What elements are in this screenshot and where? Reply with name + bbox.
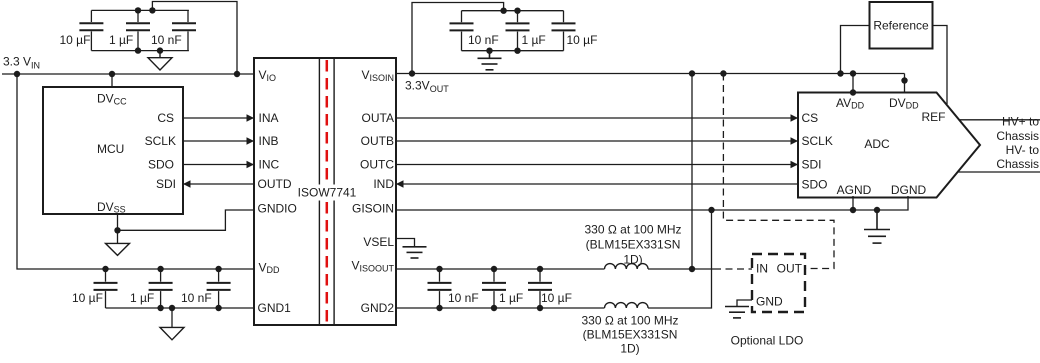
wire VSEL to ground — [396, 239, 415, 247]
isolation barrier right line — [333, 59, 335, 324]
svg-text:SDO: SDO — [148, 158, 174, 172]
node isolated ground junction — [874, 207, 880, 213]
regulator optional LDO dashed box — [752, 254, 805, 312]
node AVDD edge junction — [850, 89, 856, 95]
svg-text:OUTB: OUTB — [361, 134, 394, 148]
svg-text:330 Ω at 100 MHz: 330 Ω at 100 MHz — [584, 223, 681, 237]
capacitor 10uF (VISOOUT bank) — [528, 269, 552, 308]
svg-text:REF: REF — [922, 110, 946, 124]
node GND1 cap junctions bottom — [157, 305, 163, 311]
ground VIO bank triangle — [148, 51, 172, 70]
wire 3.3VOUT to VISOOUT vertical — [691, 74, 693, 270]
svg-text:GNDIO: GNDIO — [258, 202, 297, 216]
svg-text:OUTA: OUTA — [362, 111, 394, 125]
wire SCLK to INB — [183, 140, 254, 142]
node VISOIN bank bottom junction 1 — [486, 48, 492, 54]
svg-text:(BLM15EX331SN: (BLM15EX331SN — [583, 328, 678, 342]
ferrite bead FB2 330 ohm — [605, 303, 649, 308]
svg-text:Chassis: Chassis — [996, 129, 1039, 143]
wire CS to INA — [183, 117, 254, 119]
svg-text:OUTD: OUTD — [258, 177, 292, 191]
svg-text:ADC: ADC — [864, 137, 890, 151]
isolation barrier left line — [318, 59, 320, 324]
svg-text:HV- to: HV- to — [1006, 143, 1040, 157]
svg-text:10 µF: 10 µF — [60, 33, 91, 47]
wire SDO to INC — [183, 164, 254, 166]
svg-text:OUT: OUT — [777, 262, 803, 276]
svg-text:10 nF: 10 nF — [468, 33, 499, 47]
node 3.3VIN junction — [14, 71, 20, 77]
svg-text:Optional LDO: Optional LDO — [731, 334, 804, 348]
node DVCC junction — [109, 71, 115, 77]
wire VISOIN cap bank feed — [412, 3, 504, 74]
svg-text:1 µF: 1 µF — [522, 33, 546, 47]
ground GND1 triangle — [160, 327, 184, 339]
wire VISOOUT line — [396, 268, 714, 270]
svg-text:10 µF: 10 µF — [72, 291, 103, 305]
node VIO bank top junction 2 — [149, 7, 155, 13]
node VIO cap junction — [234, 71, 240, 77]
wire DVDD stem — [904, 74, 906, 94]
capacitor 1uF (VISOOUT bank) — [482, 269, 506, 308]
node VIO bank bottom junction 1 — [135, 47, 141, 53]
node vertical top junction — [689, 70, 695, 76]
wire DVSS ground stem — [117, 214, 119, 243]
svg-text:HV+ to: HV+ to — [1002, 115, 1039, 129]
node AVDD rail junction — [850, 70, 856, 76]
wire HV- output — [959, 171, 1040, 173]
wire Reference to REF pin — [933, 26, 948, 105]
node VISOOUT cap junctions top — [436, 266, 442, 272]
node AGND junction — [850, 207, 856, 213]
capacitor 1uF (VISOIN bank) — [506, 11, 530, 51]
node GND2 cap junctions bottom — [436, 305, 442, 311]
svg-text:SDI: SDI — [156, 177, 176, 191]
ground VSEL earth — [403, 247, 427, 258]
svg-text:(BLM15EX331SN: (BLM15EX331SN — [586, 238, 681, 252]
wire LDO IN dashed — [714, 268, 752, 270]
svg-text:10 nF: 10 nF — [448, 291, 479, 305]
svg-text:SDO: SDO — [802, 178, 828, 192]
svg-text:10 µF: 10 µF — [541, 291, 572, 305]
svg-text:INC: INC — [259, 158, 280, 172]
wire GISOIN to AGND/DGND — [396, 196, 908, 210]
wire OUTA to ADC CS — [396, 117, 798, 119]
ADC U2 pentagon — [798, 93, 980, 198]
node LDO dashed top junction — [720, 70, 726, 76]
capacitor 1uF (VIO bank) — [126, 10, 150, 50]
ground MCU triangle — [106, 243, 130, 255]
svg-text:MCU: MCU — [97, 142, 124, 156]
node VISOOUT-3.3VOUT junction — [689, 266, 695, 272]
capacitor 1uF (VDD bank) — [149, 269, 173, 308]
svg-text:OUTC: OUTC — [360, 158, 394, 172]
wire OUTC to ADC SDI — [396, 164, 798, 166]
isolation barrier red dashed line — [326, 60, 329, 324]
svg-text:ISOW7741: ISOW7741 — [298, 186, 357, 200]
svg-text:1D): 1D) — [623, 253, 642, 267]
ground VISOIN bank earth — [478, 51, 502, 70]
svg-text:1 µF: 1 µF — [130, 291, 154, 305]
svg-text:SCLK: SCLK — [802, 134, 833, 148]
capacitor 10nF (VIO bank) — [172, 10, 196, 50]
wire VIO cap bank feed — [152, 2, 237, 75]
svg-text:Reference: Reference — [873, 19, 929, 33]
ferrite bead FB1 330 ohm — [605, 264, 649, 269]
svg-text:IND: IND — [373, 177, 394, 191]
node DVDD stem junction — [901, 77, 907, 83]
capacitor 10uF (VISOIN bank) — [552, 11, 576, 51]
MCU U-MCU box — [43, 87, 183, 214]
ground ADC earth — [864, 210, 890, 243]
node VIO bank top junction 1 — [135, 7, 141, 13]
svg-text:SCLK: SCLK — [145, 134, 176, 148]
voltage reference U3 box — [870, 2, 933, 49]
node DVSS-GNDIO junction — [114, 227, 120, 233]
wire VISOIN to 3.3VOUT rail — [396, 73, 905, 75]
svg-text:VSEL: VSEL — [363, 235, 394, 249]
wire DVCC stem — [111, 74, 113, 87]
node Reference rail junction — [837, 70, 843, 76]
capacitor 10nF (VISOOUT bank) — [428, 269, 452, 308]
svg-text:IN: IN — [756, 262, 768, 276]
svg-text:CS: CS — [157, 111, 174, 125]
svg-text:330 Ω at 100 MHz: 330 Ω at 100 MHz — [581, 314, 678, 328]
svg-text:1 µF: 1 µF — [499, 291, 523, 305]
wire LDO bypass dashed path — [723, 74, 834, 269]
svg-text:1D): 1D) — [620, 342, 639, 356]
node GISOIN-GND2 junction — [708, 207, 714, 213]
wire GND1 ground stem — [171, 308, 173, 327]
node VISOIN bank top junction 2 — [514, 8, 520, 14]
svg-text:DGND: DGND — [891, 183, 927, 197]
capacitor 10nF (VISOIN bank) — [450, 11, 474, 51]
capacitor 10uF (VIO bank) — [79, 10, 103, 50]
wire AVDD stem — [852, 74, 854, 93]
node VIO bank bottom junction 2 — [157, 47, 163, 53]
svg-text:GND1: GND1 — [258, 301, 292, 315]
svg-text:1 µF: 1 µF — [109, 33, 133, 47]
wire GNDIO to MCU ground — [118, 210, 255, 230]
wire REF output to HV+ — [960, 119, 1040, 121]
wire 3.3VIN rail — [2, 73, 254, 75]
svg-text:AGND: AGND — [837, 183, 872, 197]
svg-text:GND2: GND2 — [361, 301, 395, 315]
wire OUTD to SDI — [183, 183, 254, 185]
wire OUTB to ADC SCLK — [396, 140, 798, 142]
wire Reference to rail — [841, 26, 870, 74]
wire VISOIN cap bank top rail — [462, 10, 564, 12]
node VDD cap junctions top — [102, 266, 108, 272]
wire VIO cap bank top rail — [91, 10, 188, 50]
svg-text:SDI: SDI — [802, 158, 822, 172]
wire VISOIN cap bank bottom rail — [462, 50, 564, 52]
wire GND2 line — [396, 210, 712, 308]
wire AGND stem — [852, 196, 854, 210]
node VISOIN bank top junction 1 — [500, 8, 506, 14]
wire LDO GND — [737, 300, 752, 307]
svg-text:GISOIN: GISOIN — [352, 202, 394, 216]
capacitor 10nF (VDD bank) — [207, 269, 231, 308]
svg-text:INB: INB — [259, 134, 279, 148]
wire left vertical to VDD — [17, 74, 254, 269]
svg-text:GND: GND — [756, 295, 783, 309]
ground LDO earth — [725, 307, 749, 318]
svg-text:10 nF: 10 nF — [151, 33, 182, 47]
node VISOIN junction — [409, 70, 415, 76]
wire GND1 line — [106, 307, 255, 309]
wire VIO cap bank bottom rail — [91, 50, 188, 52]
isolator U1 ISOW7741 box — [254, 58, 396, 325]
node VISOIN bank bottom junction 2 — [514, 48, 520, 54]
capacitor 10uF (VDD bank) — [94, 269, 118, 308]
svg-text:Chassis: Chassis — [996, 157, 1039, 171]
svg-text:INA: INA — [259, 111, 279, 125]
svg-text:10 nF: 10 nF — [181, 291, 212, 305]
wire ADC SDO to IND — [396, 183, 798, 185]
svg-text:CS: CS — [802, 111, 819, 125]
svg-text:10 µF: 10 µF — [567, 33, 598, 47]
